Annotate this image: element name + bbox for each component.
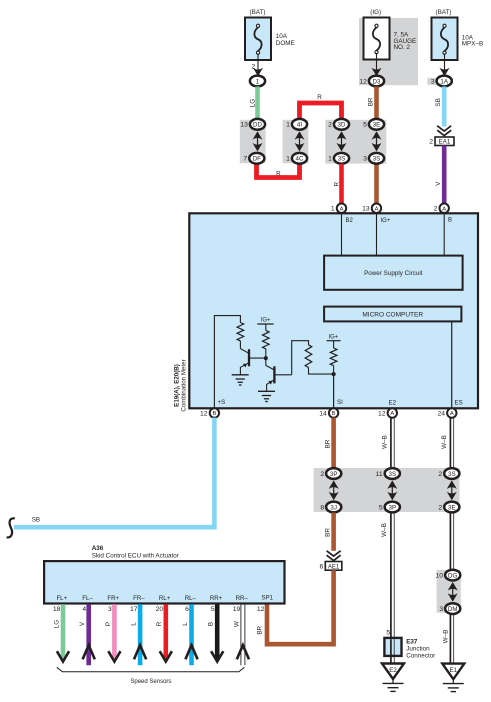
svg-text:A: A	[442, 206, 446, 212]
svg-text:FL+: FL+	[56, 595, 67, 602]
wire Q2 emitter to ground	[266, 384, 268, 391]
connector 3S pin 3	[363, 153, 384, 164]
wire B2 to power supply	[341, 213, 343, 256]
svg-text:1: 1	[286, 156, 290, 163]
svg-text:NO. 2: NO. 2	[394, 44, 411, 51]
ECU pin numbers	[53, 606, 265, 613]
svg-text:12: 12	[378, 411, 386, 418]
pin 12B +S	[200, 408, 219, 417]
wire speed sensor L 6	[185, 604, 197, 665]
wire +S internal	[214, 316, 240, 408]
arrow into connector 1	[253, 68, 263, 77]
svg-text:3S: 3S	[338, 156, 346, 163]
svg-text:Speed Sensors: Speed Sensors	[130, 679, 171, 685]
svg-text:B: B	[212, 411, 216, 417]
connector D3 pin 12	[359, 76, 384, 87]
wire W-B ES to 3S right	[450, 418, 453, 469]
svg-text:1A: 1A	[440, 78, 448, 85]
connector 3P pin 2	[320, 468, 341, 479]
IG+ rail 1	[257, 323, 273, 325]
svg-text:3: 3	[108, 606, 112, 613]
wire Q2 base loop	[292, 341, 309, 375]
svg-text:SB: SB	[435, 98, 442, 106]
fuse MPX-B 10A	[432, 18, 484, 61]
wire SI internal	[333, 374, 335, 408]
wire R from 3S to meter	[339, 164, 344, 204]
svg-text:18: 18	[53, 606, 61, 613]
svg-text:2: 2	[320, 471, 324, 478]
transistor Q2	[267, 366, 292, 384]
svg-text:V: V	[79, 621, 86, 626]
svg-text:(IG): (IG)	[370, 9, 381, 16]
svg-text:5: 5	[211, 606, 215, 613]
micro computer box	[324, 307, 461, 322]
svg-text:DG: DG	[448, 572, 457, 579]
gray panel DG/DM	[437, 570, 461, 613]
svg-text:7: 7	[243, 156, 247, 163]
ECU pin name labels	[56, 594, 273, 601]
svg-text:3P: 3P	[330, 471, 338, 478]
ground Q2	[258, 391, 275, 401]
svg-text:BR: BR	[325, 439, 332, 448]
gray panel 3D/3S 3E/3S	[325, 120, 386, 164]
svg-text:17: 17	[130, 606, 138, 613]
wire speed sensor R 5	[160, 604, 172, 661]
ground Q1	[232, 375, 249, 385]
svg-text:3: 3	[439, 606, 443, 613]
svg-text:E19(A), E20(B): E19(A), E20(B)	[173, 364, 180, 407]
gray band middle connectors	[314, 468, 460, 512]
mating arrows DG-DM	[448, 582, 458, 602]
wire fuse MPX-B to 1A	[444, 54, 446, 71]
wire speed sensor B 7	[211, 604, 223, 661]
svg-text:2: 2	[438, 504, 442, 511]
svg-text:5: 5	[363, 122, 367, 129]
wire W-B through E37	[391, 639, 394, 663]
connector EA1 pin 2	[429, 137, 454, 146]
svg-text:B: B	[332, 411, 336, 417]
svg-text:A: A	[450, 411, 454, 417]
wire Q1 emitter to ground	[239, 367, 241, 375]
mating arrows 3S-3P	[387, 480, 397, 500]
connector 3D pin 2	[328, 119, 349, 130]
wire B to power supply	[443, 213, 445, 256]
pin 1A B2	[331, 204, 346, 213]
svg-text:20: 20	[156, 606, 164, 613]
wire node to Q2 collector	[266, 358, 275, 370]
label R sensor 5	[156, 621, 163, 626]
junction connector E37	[384, 638, 401, 656]
connector DF pin 7	[243, 153, 264, 164]
svg-text:3: 3	[363, 156, 367, 163]
resistor R3	[305, 345, 312, 368]
svg-text:3J: 3J	[330, 504, 337, 511]
svg-text:W: W	[233, 621, 240, 627]
svg-text:FL–: FL–	[82, 595, 93, 602]
svg-text:4: 4	[82, 606, 86, 613]
svg-text:10: 10	[436, 573, 444, 580]
wire W-B E2 to 3S	[391, 418, 394, 469]
skid control ECU box	[44, 561, 284, 603]
label IG+ top	[381, 218, 391, 224]
transistor Q1	[240, 349, 265, 368]
wire speed sensor P 3	[108, 604, 120, 661]
ground triangle E2	[382, 664, 404, 680]
svg-text:11: 11	[376, 471, 383, 478]
fuse DOME 10A	[245, 18, 295, 61]
svg-text:B2: B2	[346, 218, 354, 224]
label +S	[218, 399, 226, 406]
arrow into 1A	[440, 68, 450, 77]
label R vertical	[334, 181, 341, 186]
svg-text:DF: DF	[253, 156, 261, 163]
connector 4C pin 1	[286, 153, 307, 164]
connector DD pin 13	[240, 119, 265, 130]
svg-text:SI: SI	[337, 399, 343, 406]
svg-text:E2: E2	[389, 667, 397, 674]
svg-text:R: R	[276, 171, 281, 178]
svg-text:8: 8	[320, 504, 324, 511]
label W-B below DM	[442, 630, 449, 644]
wire SB from 1A	[442, 87, 447, 127]
svg-text:Connector: Connector	[406, 652, 435, 659]
label BR below 3J	[324, 528, 331, 537]
svg-text:1: 1	[328, 156, 332, 163]
wire BR SI to 3P	[331, 418, 336, 469]
pin 12A E2	[378, 408, 397, 417]
pin 24A ES	[437, 408, 456, 417]
gray panel IG fuse	[359, 18, 418, 85]
speed sensors bracket	[57, 667, 245, 672]
combination meter box	[189, 213, 478, 408]
label W-B above 3S	[381, 435, 388, 449]
svg-text:RL+: RL+	[159, 595, 171, 602]
label ES pin	[455, 400, 463, 407]
svg-text:12: 12	[359, 78, 367, 85]
wire LG	[255, 87, 260, 120]
connector 3P pin 5	[379, 502, 400, 513]
connector 3E pin 2	[438, 502, 459, 513]
svg-text:5: 5	[386, 630, 390, 637]
svg-text:R: R	[317, 94, 322, 101]
svg-text:W–B: W–B	[381, 523, 388, 537]
label B2	[346, 218, 354, 224]
connector 3S pin 2	[438, 468, 459, 479]
label R upper	[317, 94, 322, 101]
svg-text:W–B: W–B	[442, 630, 449, 644]
label IG+ 1	[261, 318, 271, 324]
svg-text:E37: E37	[406, 639, 418, 646]
svg-text:2: 2	[328, 122, 332, 129]
label BR above 3P	[325, 439, 332, 448]
svg-text:24: 24	[437, 411, 445, 418]
svg-text:DD: DD	[253, 122, 262, 129]
svg-text:AE1: AE1	[328, 564, 340, 570]
mating arrows 3D-3S	[337, 131, 347, 151]
wire speed sensor V 2	[83, 604, 95, 665]
mating arrows 3S-3E	[447, 480, 457, 500]
svg-text:3S: 3S	[373, 156, 381, 163]
svg-text:12: 12	[257, 606, 265, 613]
label A36	[92, 545, 104, 552]
svg-text:6: 6	[185, 606, 189, 613]
wire speed sensor LG 1	[57, 604, 69, 661]
svg-text:4C: 4C	[296, 156, 304, 163]
splice chevrons above EA1	[437, 126, 451, 136]
svg-text:1: 1	[286, 122, 290, 129]
gray panel DD/DF	[240, 120, 266, 163]
ground triangle E1	[442, 664, 464, 680]
pin 14B SI	[319, 408, 338, 417]
wire R from DF to 4C	[257, 163, 300, 178]
svg-text:2: 2	[438, 471, 442, 478]
label SB	[435, 98, 442, 106]
label Skid Control ECU	[92, 552, 179, 559]
pin 2A B	[434, 204, 449, 213]
wire IG+ to power supply	[376, 213, 378, 256]
svg-text:2: 2	[434, 206, 438, 213]
svg-text:B: B	[448, 218, 452, 224]
svg-text:3P: 3P	[389, 504, 397, 511]
label W sensor 8	[233, 621, 240, 627]
svg-text:SP1: SP1	[262, 594, 274, 601]
svg-text:13: 13	[240, 122, 248, 129]
arrow into D3	[372, 68, 382, 77]
power supply circuit box	[324, 256, 463, 290]
svg-text:SB: SB	[32, 517, 40, 524]
fuse GAUGE NO.2 (IG) label	[370, 9, 381, 16]
label B top	[448, 218, 452, 224]
svg-text:IG+: IG+	[381, 218, 391, 224]
svg-text:1: 1	[256, 78, 260, 85]
wire R3 to SI node	[309, 368, 334, 375]
resistor R2	[262, 330, 269, 348]
connector DM pin 3	[439, 603, 460, 614]
svg-text:L: L	[131, 622, 138, 626]
pin 13A IG+	[362, 204, 381, 213]
wire ES internal	[451, 321, 453, 408]
svg-text:5: 5	[379, 504, 383, 511]
mating arrows 4I-4C	[295, 131, 305, 151]
wire BR from D3	[374, 87, 379, 204]
svg-text:B: B	[208, 622, 215, 626]
svg-text:4I: 4I	[297, 122, 302, 129]
wire BR 3J to AE1	[331, 513, 336, 551]
svg-text:IG+: IG+	[328, 335, 338, 341]
label B sensor 7	[208, 622, 215, 626]
svg-text:BR: BR	[368, 97, 375, 106]
svg-text:1: 1	[331, 206, 335, 213]
fuse GAUGE NO.2 7.5A	[364, 18, 417, 60]
resistor R1	[237, 323, 244, 341]
IG+ rail 2	[327, 340, 341, 342]
wire fuse DOME to connector 1	[251, 54, 258, 71]
svg-text:3D: 3D	[338, 122, 346, 129]
label LG sensor 1	[53, 620, 60, 629]
svg-text:Power Supply Circuit: Power Supply Circuit	[364, 270, 423, 277]
mating arrows 3E-3S	[372, 131, 382, 151]
connector 3E pin 5	[363, 119, 384, 130]
fuse MPX-B (BAT) label	[436, 9, 452, 16]
svg-text:3S: 3S	[389, 471, 397, 478]
wire SB to skid ECU	[14, 418, 214, 528]
label L sensor 6	[182, 622, 189, 626]
label V	[435, 181, 442, 186]
svg-text:BR: BR	[324, 528, 331, 537]
gray panel 4I/4C	[283, 120, 309, 163]
continuation squiggle SB	[7, 518, 15, 537]
wire V from EA1	[442, 146, 447, 205]
svg-text:A36: A36	[92, 545, 104, 552]
label V sensor 2	[79, 621, 86, 626]
resistor R4	[330, 348, 337, 366]
svg-text:6: 6	[320, 564, 324, 571]
svg-text:RR+: RR+	[210, 595, 223, 602]
svg-text:3E: 3E	[373, 122, 381, 129]
label E2 pin	[389, 400, 397, 407]
svg-text:DM: DM	[448, 606, 458, 613]
wire R4 to SI node	[333, 366, 335, 375]
connector 4I pin 1	[286, 119, 307, 130]
svg-text:FR+: FR+	[107, 595, 119, 602]
svg-text:R: R	[156, 621, 163, 626]
svg-text:IG+: IG+	[261, 318, 271, 324]
svg-text:R: R	[334, 181, 341, 186]
svg-text:W–B: W–B	[381, 435, 388, 449]
wire IG+1 to R2	[265, 324, 267, 330]
svg-text:A: A	[340, 206, 344, 212]
svg-text:ES: ES	[455, 400, 463, 407]
svg-text:3: 3	[431, 78, 435, 85]
svg-text:BR: BR	[256, 625, 263, 634]
wire R from 4I to 3D	[300, 103, 342, 120]
node SI junction	[332, 372, 336, 376]
wire R2 to node	[265, 349, 267, 358]
svg-text:RL–: RL–	[185, 595, 197, 602]
label W-B below 3P	[381, 523, 388, 537]
svg-text:Combination Meter: Combination Meter	[180, 359, 187, 411]
svg-text:13: 13	[362, 206, 370, 213]
label E37 Junction Connector	[406, 639, 435, 660]
label BR	[368, 97, 375, 106]
svg-text:E1: E1	[450, 667, 458, 674]
svg-text:A: A	[390, 411, 394, 417]
connector AE1 pin 6	[320, 562, 342, 571]
label W-B above 3S right	[441, 435, 448, 449]
wire W-B 3E to DG	[450, 513, 453, 570]
connector DG pin 10	[436, 570, 461, 581]
label P sensor 3	[105, 622, 112, 626]
connector 3S pin 11	[376, 468, 400, 479]
label SB lower	[32, 517, 40, 524]
svg-text:LG: LG	[53, 620, 60, 629]
svg-text:(BAT): (BAT)	[436, 9, 452, 16]
label BR near SP1	[256, 625, 263, 634]
ground symbol E2	[383, 679, 404, 691]
svg-text:E2: E2	[389, 400, 397, 407]
ground symbol E1	[443, 679, 464, 691]
svg-text:D3: D3	[373, 78, 381, 85]
svg-text:14: 14	[319, 411, 327, 418]
label Speed Sensors	[130, 679, 171, 685]
gray strip behind 1A	[427, 78, 452, 85]
splice chevrons above AE1	[327, 551, 341, 561]
connector 3S pin 1	[328, 153, 349, 164]
label SI	[337, 399, 343, 406]
svg-text:(BAT): (BAT)	[250, 9, 266, 16]
label LG	[249, 99, 256, 108]
wire fuse GAUGE to D3	[376, 53, 378, 70]
wire R1 to Q1 collector	[239, 341, 241, 349]
connector 3J pin 8	[320, 502, 341, 513]
svg-text:EA1: EA1	[439, 139, 451, 146]
svg-text:V: V	[435, 181, 442, 186]
label Combination Meter	[180, 359, 187, 411]
wire speed sensor L 4	[134, 604, 146, 665]
fuse DOME 10A (BAT) label	[250, 9, 266, 16]
svg-text:W–B: W–B	[441, 435, 448, 449]
svg-text:MPX–B: MPX–B	[462, 41, 483, 48]
connector 1 pin 2	[250, 76, 265, 87]
svg-text:RR–: RR–	[236, 595, 249, 602]
svg-text:12: 12	[200, 411, 208, 418]
svg-text:MICRO COMPUTER: MICRO COMPUTER	[362, 312, 423, 319]
wire IG+2 to R4	[333, 341, 335, 348]
label R lower	[276, 171, 281, 178]
wire W-B DM to E1	[450, 614, 453, 663]
svg-text:3E: 3E	[448, 504, 456, 511]
wire W-B 3P to E37	[391, 513, 394, 638]
svg-text:19: 19	[233, 606, 241, 613]
svg-text:DOME: DOME	[276, 40, 295, 47]
node Q1 base junction	[264, 356, 268, 360]
svg-text:LG: LG	[249, 99, 256, 108]
label E19(A) E20(B)	[173, 364, 180, 407]
svg-text:L: L	[182, 622, 189, 626]
mating arrows 3P-3J	[329, 480, 339, 500]
label E37 pin 5	[386, 630, 390, 637]
svg-text:+S: +S	[218, 399, 226, 406]
mating arrows DD-DF	[253, 131, 263, 151]
svg-text:P: P	[105, 622, 112, 626]
svg-text:Skid Control ECU with Actuator: Skid Control ECU with Actuator	[92, 552, 179, 559]
label IG+ 2	[328, 335, 338, 341]
wire speed sensor W 8	[237, 604, 249, 665]
svg-text:2: 2	[429, 139, 433, 146]
svg-text:3S: 3S	[448, 471, 456, 478]
svg-text:A: A	[375, 206, 379, 212]
label L sensor 4	[131, 622, 138, 626]
svg-text:FR–: FR–	[133, 595, 145, 602]
wire BR AE1 to SP1	[267, 570, 334, 644]
connector 1A pin 3	[431, 76, 452, 87]
